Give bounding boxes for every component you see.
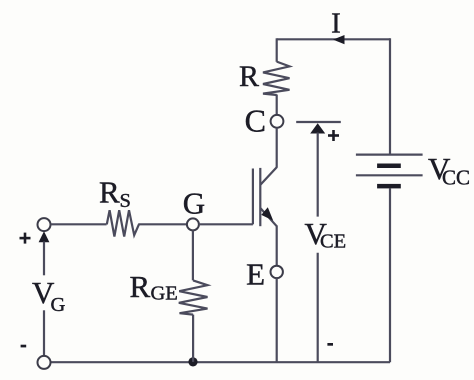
svg-text:R: R: [99, 175, 120, 210]
svg-text:S: S: [120, 190, 131, 212]
source VG top terminal circle: [38, 218, 51, 231]
source VG bottom terminal circle: [38, 356, 51, 369]
transistor Q1 IGBT emitter diagonal: [260, 208, 276, 226]
svg-text:C: C: [245, 103, 266, 139]
resistor R: [263, 62, 290, 95]
battery VCC plate short thick 1: [377, 164, 401, 169]
svg-text:I: I: [331, 7, 341, 39]
svg-text:G: G: [183, 185, 205, 220]
node E terminal circle: [271, 266, 283, 278]
wire: node G down to RGE: [192, 230, 194, 280]
wire: Vcc branch bottom vertical: [389, 188, 391, 362]
transistor Q1 IGBT gate bar: [252, 169, 254, 225]
wire: top rail from collector branch to Vcc branch: [277, 38, 390, 40]
current arrow I (pointing left on top rail): [333, 35, 345, 44]
wire: RGE to bottom rail: [192, 315, 194, 362]
VCE measurement top bar: [296, 121, 341, 123]
svg-text:R: R: [130, 269, 151, 304]
battery VCC plate long bottom: [356, 174, 423, 176]
minus sign of VG: [21, 345, 27, 348]
svg-text:GE: GE: [151, 282, 178, 304]
wire: R to node C: [276, 95, 278, 116]
transistor Q1 IGBT emitter arrow: [261, 207, 273, 220]
source VG arrow head (up): [39, 231, 50, 242]
VCE measurement vertical line lower: [317, 253, 319, 362]
wire: VG top terminal to RS: [51, 223, 107, 225]
VCE arrow head (up): [310, 123, 325, 133]
wire: IGBT emitter to node E: [276, 226, 278, 266]
wire: bottom rail: [51, 361, 391, 363]
svg-text:E: E: [246, 257, 265, 292]
source VG vertical line upper: [43, 242, 45, 276]
wire: Vcc branch top vertical: [389, 38, 391, 154]
svg-text:G: G: [51, 294, 66, 316]
label VCC: [428, 151, 470, 189]
node C terminal circle: [271, 115, 284, 128]
transistor Q1 IGBT body bar: [259, 168, 261, 226]
battery VCC plate long top: [356, 154, 423, 156]
plus sign of VCE: [328, 130, 339, 141]
wire: collector branch top vertical: [276, 38, 278, 62]
label RS: [99, 175, 131, 212]
battery VCC plate short thick 2: [377, 184, 401, 189]
resistor RGE: [179, 280, 208, 314]
label VG: [32, 275, 66, 316]
label VCE: [305, 216, 347, 253]
resistor RS: [107, 210, 139, 236]
node G terminal circle: [187, 218, 199, 230]
svg-text:CE: CE: [320, 231, 346, 253]
svg-text:CC: CC: [442, 165, 470, 189]
svg-text:R: R: [239, 60, 259, 93]
source VG vertical line lower: [43, 310, 45, 355]
wire: node C to IGBT collector: [276, 128, 278, 168]
junction dot at RGE / bottom rail: [188, 357, 197, 366]
label RGE: [130, 269, 178, 304]
wire: RS to node G: [138, 223, 187, 225]
VCE measurement vertical line upper: [317, 133, 319, 217]
wire: node G to IGBT gate: [199, 223, 253, 225]
wire: node E to bottom rail: [276, 278, 278, 362]
plus sign of VG: [20, 233, 31, 244]
minus sign of VCE: [327, 343, 333, 346]
transistor Q1 IGBT collector diagonal: [260, 167, 276, 185]
